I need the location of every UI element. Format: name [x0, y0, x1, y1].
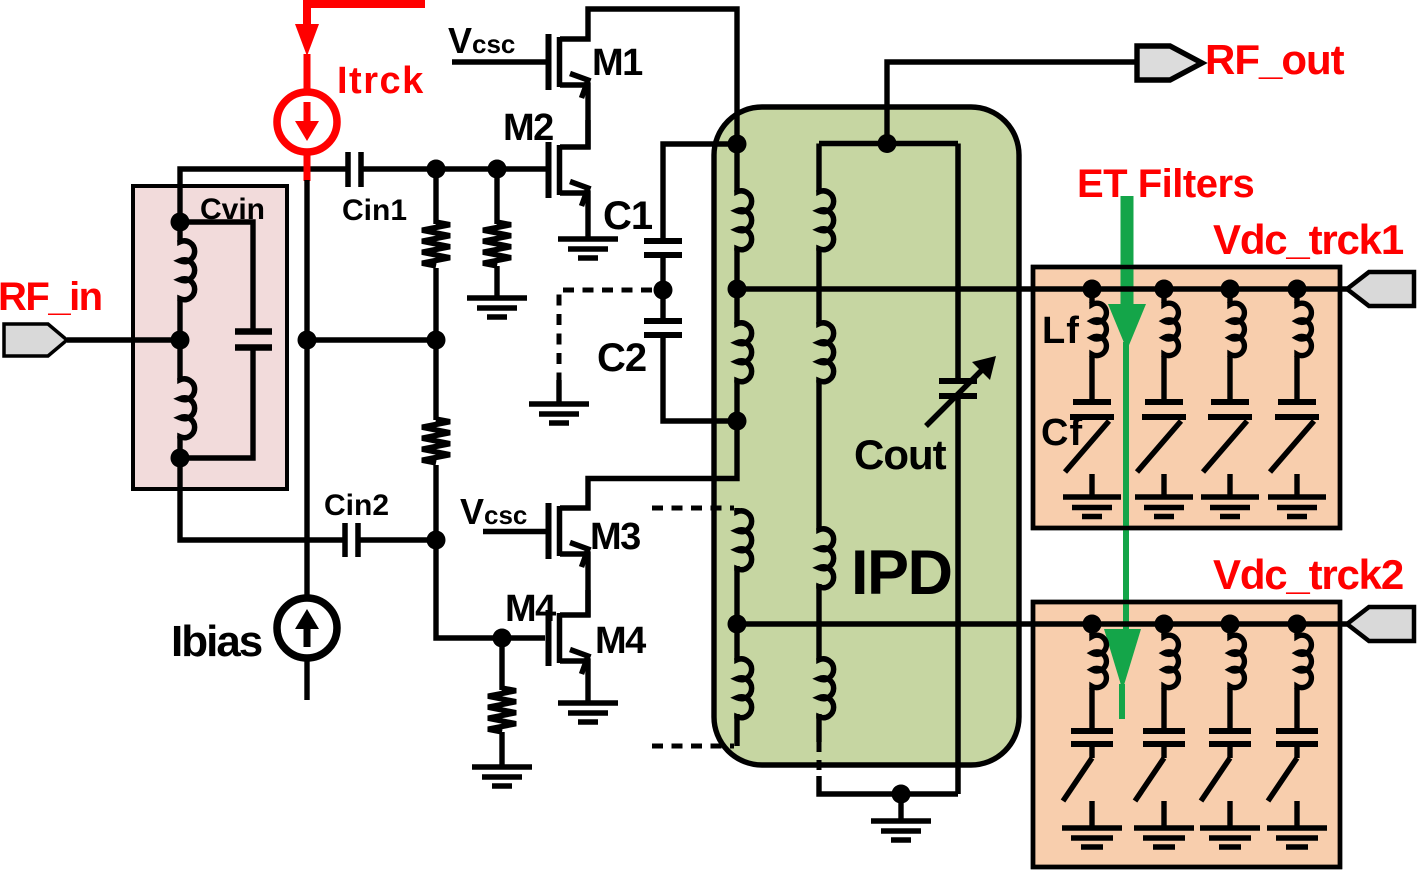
node (C1/C2)	[654, 281, 673, 300]
wire	[816, 380, 821, 530]
bias vertical wire (Itrck/Ibias line)	[304, 180, 309, 601]
Itrck arrow (down)	[304, 102, 311, 124]
capacitor C1 plate 1	[644, 238, 682, 244]
svg-text:Ibias: Ibias	[171, 617, 262, 666]
red feed arrowhead	[295, 24, 319, 56]
ground (IPD output)	[871, 821, 931, 840]
ground (R4)	[472, 767, 532, 786]
wire	[177, 436, 182, 458]
ET filter cell 3 (Lf, Cf, switch, ground)	[1201, 280, 1259, 517]
ET tracking arrowhead into Vdc_trck2	[1104, 629, 1141, 690]
wire bias node to resistor column	[307, 337, 436, 342]
wire	[177, 300, 182, 380]
svg-text:Lf: Lf	[1042, 310, 1080, 352]
capacitor Cvin plate 1	[235, 328, 272, 335]
capacitor C2 plate 1	[644, 318, 682, 324]
ground (M2 source)	[558, 239, 618, 258]
ground (C2 dashed)	[529, 404, 589, 423]
wire ground stem	[898, 794, 903, 820]
wire	[734, 289, 739, 324]
svg-text:Vcsc: Vcsc	[448, 20, 515, 61]
ET tracking arrow thin shaft (green)	[1123, 342, 1129, 632]
transistor M2 source arrow	[570, 182, 588, 207]
transistor M4 gate bar	[546, 610, 552, 666]
wire secondary bottom to ground node	[819, 776, 958, 794]
inductor (secondary 4)	[819, 658, 834, 719]
inductor Lin1 (Cvin block upper)	[180, 240, 195, 301]
wire Cin2 to node	[360, 537, 438, 542]
transistor M1 source arrow	[570, 74, 588, 99]
transistor M4 drain wire	[560, 590, 588, 615]
node (Vdc_trck2 tap)	[728, 615, 747, 634]
svg-text:Cf: Cf	[1041, 412, 1083, 454]
inductor (primary upper 2)	[737, 322, 752, 383]
wire	[499, 638, 504, 690]
IPD block (green rounded box)	[714, 107, 1019, 765]
red wire into Itrck source	[304, 54, 311, 93]
svg-text:C2: C2	[597, 336, 646, 380]
red feed rail to Itrck	[307, 4, 425, 26]
svg-text:Vcsc: Vcsc	[460, 491, 527, 532]
transistor M3 channel bar	[557, 506, 563, 556]
wire secondary top rail	[819, 141, 958, 146]
node	[427, 160, 446, 179]
node	[427, 531, 446, 550]
ET filter cell 7 (Lf, Cf, switch, ground)	[1200, 615, 1260, 848]
ET filter cell 5 (Lf, Cf, switch, ground)	[1062, 615, 1122, 848]
svg-text:Cout: Cout	[854, 431, 947, 478]
svg-text:Cin2: Cin2	[324, 489, 389, 522]
resistor R2 (bias divider lower)	[422, 419, 450, 463]
Cout variable arrow	[926, 368, 984, 426]
svg-text:Cin1: Cin1	[342, 194, 407, 227]
inductor (secondary 1)	[819, 190, 834, 251]
svg-text:Vdc_trck1: Vdc_trck1	[1213, 216, 1404, 263]
Vcsc wire (M3 gate)	[483, 529, 548, 534]
svg-text:Itrck: Itrck	[337, 60, 425, 102]
node (C2 tap)	[728, 412, 747, 431]
wire	[816, 714, 821, 742]
red wire Itrck source output	[304, 150, 311, 181]
wire	[494, 169, 499, 224]
RF_in port connector	[4, 324, 67, 356]
dashed wire (to IPD primary lower, top)	[652, 506, 734, 511]
ET tracking arrowhead into Vdc_trck1	[1108, 304, 1146, 350]
capacitor Cin2 plate 1	[342, 523, 348, 557]
node (RF_out tap)	[878, 134, 897, 153]
ET filter bank box 2 (Vdc_trck2)	[1033, 602, 1340, 867]
svg-text:C1: C1	[603, 194, 653, 238]
node	[488, 160, 507, 179]
capacitor Cin1 plate 2	[358, 152, 364, 187]
wire	[734, 508, 739, 512]
wire	[177, 222, 182, 242]
transistor M3 drain wire	[560, 421, 737, 508]
svg-text:ET Filters: ET Filters	[1077, 162, 1254, 206]
wire pink box bottom to Cin2	[180, 458, 343, 540]
node (M4 bias tap)	[493, 629, 512, 648]
dashed wire (C1/C2 node to ground)	[559, 290, 652, 382]
capacitor C2 plate 2	[644, 332, 682, 338]
node (IPD drain feed)	[728, 135, 747, 154]
filter box 2 border (over arrow)	[1033, 602, 1340, 867]
transistor M1 gate bar	[546, 34, 552, 90]
svg-text:M1: M1	[592, 42, 643, 84]
node (bias line to RF node)	[298, 331, 317, 350]
dashed wire (to IPD primary lower, bottom)	[652, 744, 734, 749]
inductor (primary lower 2)	[737, 658, 752, 719]
IPD secondary winding column	[816, 144, 821, 193]
transistor M4 source arrow	[570, 650, 588, 675]
resistor R3 (M2 gate bias)	[483, 222, 511, 266]
node (IPD ground)	[892, 785, 911, 804]
wire	[433, 169, 438, 224]
svg-text:M2: M2	[503, 107, 553, 149]
transistor M2 drain wire	[560, 120, 588, 147]
ET filter cell 8 (Lf, Cf, switch, ground)	[1267, 615, 1327, 848]
inductor (secondary 3)	[819, 528, 834, 589]
resistor R4 (M4 bias)	[488, 688, 516, 732]
wire	[734, 248, 739, 289]
IPD right branch lower wire	[955, 398, 961, 794]
ground (M4 source)	[558, 703, 618, 722]
transistor M2 source wire	[560, 193, 588, 237]
wire	[734, 380, 739, 421]
capacitor Cvin branch wire (top)	[180, 222, 253, 329]
ground (R3)	[467, 298, 527, 317]
wire Vdc_trck2 feed	[737, 621, 1349, 626]
svg-text:RF_out: RF_out	[1205, 36, 1345, 83]
transistor M2 gate bar	[546, 142, 552, 198]
capacitor Cvin plate 2	[235, 344, 272, 351]
capacitor Cout plate 1	[939, 378, 977, 384]
transistor M4 channel bar	[557, 613, 563, 663]
svg-text:RF_in: RF_in	[0, 275, 102, 319]
IPD primary winding column	[734, 144, 739, 192]
wire	[816, 248, 821, 324]
wire	[494, 266, 499, 297]
capacitor Cout plate 2	[939, 393, 977, 399]
transistor M1 source wire	[560, 85, 588, 149]
wire	[816, 584, 821, 660]
svg-text:M4: M4	[595, 620, 646, 662]
ET filter cell 4 (Lf, Cf, switch, ground)	[1268, 280, 1326, 517]
Vdc_trck2 port connector	[1347, 607, 1414, 641]
filter box 1 border (over arrow)	[1033, 267, 1340, 528]
ET filter cell 1 (Lf inductor, Cf capacitor, switch, ground)	[1063, 280, 1121, 517]
Ibias arrow (up)	[304, 626, 311, 647]
ET filter cell 2 (Lf, Cf, switch, ground)	[1135, 280, 1193, 517]
node (top of Cvin block)	[171, 213, 190, 232]
transistor M3 source wire	[560, 554, 588, 617]
ET filter bank box 1 (Vdc_trck1)	[1033, 267, 1340, 528]
Vdc_trck1 port connector	[1347, 272, 1414, 306]
transistor M3 source arrow	[570, 543, 588, 568]
svg-text:M3: M3	[590, 516, 640, 558]
ET tracking arrow thick shaft (green)	[1121, 196, 1134, 307]
RF_out port connector	[1137, 46, 1202, 80]
wire below Ibias	[304, 659, 309, 700]
inductor (primary upper 1)	[737, 190, 752, 251]
wire RF_in to input network	[67, 337, 182, 342]
svg-text:IPD: IPD	[851, 538, 952, 608]
wire Vdc_trck1 feed	[737, 286, 1349, 291]
inductor Lin2 (Cvin block lower)	[180, 378, 195, 439]
wire stub to ground	[556, 380, 561, 402]
IPD right branch (Cout) upper wire	[955, 144, 961, 380]
capacitor C1 plate 2	[644, 252, 682, 258]
wire	[734, 714, 739, 746]
svg-text:M4: M4	[505, 588, 556, 630]
input matching network box (Cvin block)	[133, 186, 287, 489]
resistor R1 (bias divider upper)	[422, 222, 450, 266]
capacitor Cvin branch wire (bottom)	[180, 350, 253, 458]
capacitor Cin1 plate 1	[345, 152, 351, 187]
transistor M3 gate bar	[546, 503, 552, 559]
wire Cin1 to M2 gate	[363, 166, 549, 171]
ET tracking arrow tail (green)	[1119, 684, 1125, 719]
wire	[433, 465, 438, 540]
inductor (secondary 2)	[819, 322, 834, 383]
node (RF_in tap)	[171, 331, 190, 350]
capacitor Cin2 plate 2	[355, 523, 361, 557]
transistor M1 channel bar	[557, 37, 563, 87]
svg-text:Vdc_trck2: Vdc_trck2	[1213, 551, 1403, 598]
wire	[734, 566, 739, 624]
wire C1 to C2	[660, 257, 665, 319]
wire input column top (pink box to Cin1 line)	[180, 169, 347, 222]
node (bottom of Cvin block)	[171, 449, 190, 468]
svg-text:Cvin: Cvin	[200, 193, 265, 226]
wire C1 top to IPD primary	[663, 144, 735, 243]
transistor M2 channel bar	[557, 145, 563, 195]
node (Vdc_trck1 tap)	[728, 280, 747, 299]
wire	[433, 268, 438, 420]
wire	[499, 732, 504, 766]
transistor M1 drain wire	[560, 9, 737, 144]
Vcsc wire (M1 gate)	[452, 59, 548, 64]
wire	[734, 624, 739, 660]
ET filter cell 6 (Lf, Cf, switch, ground)	[1134, 615, 1194, 848]
node	[427, 331, 446, 350]
dashed wire (secondary to ground link)	[817, 742, 822, 778]
wire C2 bottom to IPD	[663, 337, 735, 421]
transistor M4 source wire	[560, 661, 588, 701]
wire RF_out	[887, 62, 1137, 143]
current source Itrck	[277, 92, 337, 152]
inductor (primary lower 1)	[737, 510, 752, 571]
current source Ibias	[277, 598, 337, 658]
wire column to M4 gate	[436, 540, 545, 638]
